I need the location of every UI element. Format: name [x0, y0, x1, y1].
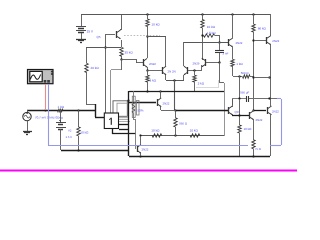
- svg-text:1.5 kΩ: 1.5 kΩ: [207, 31, 217, 35]
- svg-text:V2: V2: [68, 128, 72, 132]
- svg-text:2N29: 2N29: [193, 61, 200, 65]
- svg-text:2N 2N: 2N 2N: [168, 69, 176, 73]
- svg-text:50 kΩ: 50 kΩ: [81, 130, 90, 134]
- svg-text:3 nF: 3 nF: [223, 52, 229, 56]
- svg-text:2N22: 2N22: [236, 41, 243, 45]
- svg-text:2N22: 2N22: [256, 118, 263, 122]
- svg-text:10 kΩ: 10 kΩ: [244, 127, 253, 131]
- svg-text:Q9: Q9: [235, 110, 239, 114]
- svg-text:2N22: 2N22: [142, 148, 149, 152]
- svg-text:10 kΩ: 10 kΩ: [190, 129, 199, 133]
- svg-text:560 Ω: 560 Ω: [241, 71, 250, 75]
- svg-text:560 Ω: 560 Ω: [179, 121, 188, 125]
- svg-text:20 kΩ: 20 kΩ: [91, 66, 100, 70]
- svg-text:3 kΩ: 3 kΩ: [198, 81, 205, 85]
- svg-text:10 kΩ: 10 kΩ: [151, 129, 160, 133]
- svg-text:10 kΩ: 10 kΩ: [207, 25, 216, 29]
- svg-text:1 kΩ: 1 kΩ: [236, 62, 243, 66]
- svg-text:560 µF: 560 µF: [240, 91, 249, 95]
- svg-text:50%: 50%: [138, 108, 144, 112]
- svg-text:2N22: 2N22: [163, 102, 170, 106]
- svg-text:Q5: Q5: [97, 35, 101, 39]
- svg-text:2N22: 2N22: [272, 109, 279, 113]
- svg-text:1.5 V: 1.5 V: [66, 135, 73, 139]
- svg-text:2N22: 2N22: [149, 62, 156, 66]
- svg-text:75 Ω: 75 Ω: [255, 147, 261, 151]
- svg-text:3 kΩ: 3 kΩ: [150, 79, 157, 83]
- svg-text:15 V: 15 V: [87, 30, 94, 34]
- svg-text:86 kΩ: 86 kΩ: [258, 27, 267, 31]
- svg-text:2N22: 2N22: [272, 39, 279, 43]
- svg-text:10 kΩ: 10 kΩ: [151, 23, 160, 27]
- svg-text:1 kΩ: 1 kΩ: [58, 105, 65, 109]
- svg-text:35 kΩ: 35 kΩ: [125, 51, 134, 55]
